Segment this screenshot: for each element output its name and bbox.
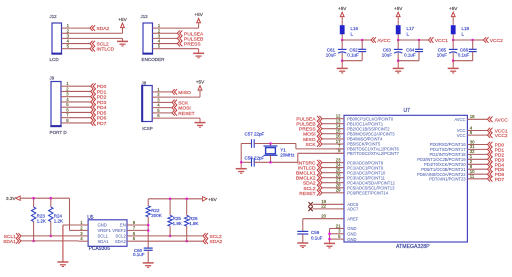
svg-text:+5V: +5V [208,197,217,202]
svg-text:SCK: SCK [178,100,189,106]
svg-text:RESET: RESET [178,111,194,117]
svg-text:AVCC: AVCC [495,117,509,123]
svg-text:+5V: +5V [194,12,203,17]
svg-text:PD5: PD5 [97,110,107,116]
svg-text:J12: J12 [50,14,58,19]
svg-text:VCC2: VCC2 [490,38,503,44]
svg-text:PCA9306: PCA9306 [89,246,111,252]
svg-text:VCC1: VCC1 [435,38,448,44]
svg-text:PORT D: PORT D [50,130,68,135]
svg-text:AREF: AREF [347,216,359,221]
svg-text:GND: GND [347,226,356,231]
svg-text:PD4: PD4 [97,105,107,111]
svg-text:PD7: PD7 [495,177,505,183]
svg-text:PULSEB: PULSEB [184,36,203,42]
svg-text:MISO: MISO [178,90,191,96]
svg-text:MISO: MISO [303,137,316,143]
svg-text:SDA2: SDA2 [97,26,110,32]
svg-text:ENCODER: ENCODER [142,57,166,62]
svg-text:J13: J13 [141,14,149,19]
svg-text:20MHz: 20MHz [280,152,295,157]
svg-text:+5V: +5V [449,6,458,11]
svg-text:ADC7: ADC7 [347,207,359,212]
svg-text:0.1uF: 0.1uF [133,252,145,257]
svg-text:10uF: 10uF [326,52,337,57]
svg-text:J8: J8 [142,81,147,86]
svg-text:1.2K: 1.2K [54,219,63,224]
svg-text:200K: 200K [151,213,162,218]
svg-text:PB7/TOSC2/XTAL2/PCINT7: PB7/TOSC2/XTAL2/PCINT7 [347,151,399,156]
svg-text:20: 20 [321,214,326,219]
svg-text:PD2: PD2 [97,95,107,101]
svg-text:LCD: LCD [50,57,60,62]
svg-text:3.3V: 3.3V [6,196,17,201]
svg-text:AVCC: AVCC [377,38,391,44]
svg-text:+5V: +5V [394,6,403,11]
svg-text:0.1uF: 0.1uF [458,52,470,57]
svg-text:0.1uF: 0.1uF [311,236,323,241]
svg-text:1.2K: 1.2K [37,219,46,224]
svg-text:VREF1: VREF1 [98,228,112,233]
svg-text:11: 11 [470,174,475,179]
svg-text:EN: EN [120,223,126,228]
svg-text:10uF: 10uF [382,52,393,57]
svg-text:10uF: 10uF [437,52,448,57]
svg-text:0.1uF: 0.1uF [404,52,416,57]
svg-text:SCL2: SCL2 [115,234,126,239]
svg-text:+5V: +5V [338,6,347,11]
svg-text:GND: GND [347,237,356,242]
svg-text:PD0: PD0 [97,84,107,90]
svg-text:29: 29 [336,188,341,193]
svg-text:PC6/RESET/PCINT14: PC6/RESET/PCINT14 [347,191,389,196]
svg-text:C59: C59 [311,230,320,235]
svg-text:1.8K: 1.8K [189,221,198,226]
svg-text:VREF2: VREF2 [112,228,126,233]
svg-text:MOSI: MOSI [303,132,316,138]
svg-text:22: 22 [321,204,326,209]
svg-text:J9: J9 [50,76,55,81]
svg-text:AVCC: AVCC [454,117,465,122]
svg-text:SDA2: SDA2 [210,239,223,245]
svg-text:U7: U7 [404,108,411,114]
svg-text:PULSEA: PULSEA [184,31,204,37]
svg-text:SDA2: SDA2 [115,239,127,244]
svg-text:INTLCD: INTLCD [97,47,115,53]
svg-text:PD7: PD7 [97,121,107,127]
svg-text:+5V: +5V [118,17,127,22]
svg-text:C57 22pF: C57 22pF [245,132,265,137]
svg-text:INTLCD: INTLCD [298,166,316,172]
svg-text:SCL1: SCL1 [98,234,109,239]
svg-text:+5V: +5V [196,80,205,85]
svg-text:SDA2: SDA2 [303,181,316,187]
svg-text:SDA1: SDA1 [3,239,16,245]
svg-text:PD7/AIN1/PCINT23: PD7/AIN1/PCINT23 [429,177,466,182]
svg-text:PD1: PD1 [97,89,107,95]
svg-text:SCL2: SCL2 [210,234,223,240]
svg-text:21: 21 [336,223,341,228]
svg-text:SCL2: SCL2 [97,42,110,48]
svg-text:RESET: RESET [299,191,315,197]
svg-text:ICSP: ICSP [142,126,153,131]
svg-text:PD6: PD6 [97,116,107,122]
svg-text:SCK: SCK [306,142,317,148]
svg-text:1.8K: 1.8K [173,221,182,226]
svg-text:ATMEGA328P: ATMEGA328P [396,244,430,250]
svg-text:SDA1: SDA1 [98,239,110,244]
svg-text:VCC2: VCC2 [495,133,508,139]
svg-text:GND: GND [347,232,356,237]
svg-text:0.1uF: 0.1uF [347,52,359,57]
svg-text:VCC: VCC [457,133,466,138]
svg-text:PD3: PD3 [97,100,107,106]
svg-text:GND: GND [98,223,107,228]
svg-text:18: 18 [470,114,475,119]
svg-text:MOSI: MOSI [178,106,191,112]
svg-text:PRESS: PRESS [184,42,201,48]
